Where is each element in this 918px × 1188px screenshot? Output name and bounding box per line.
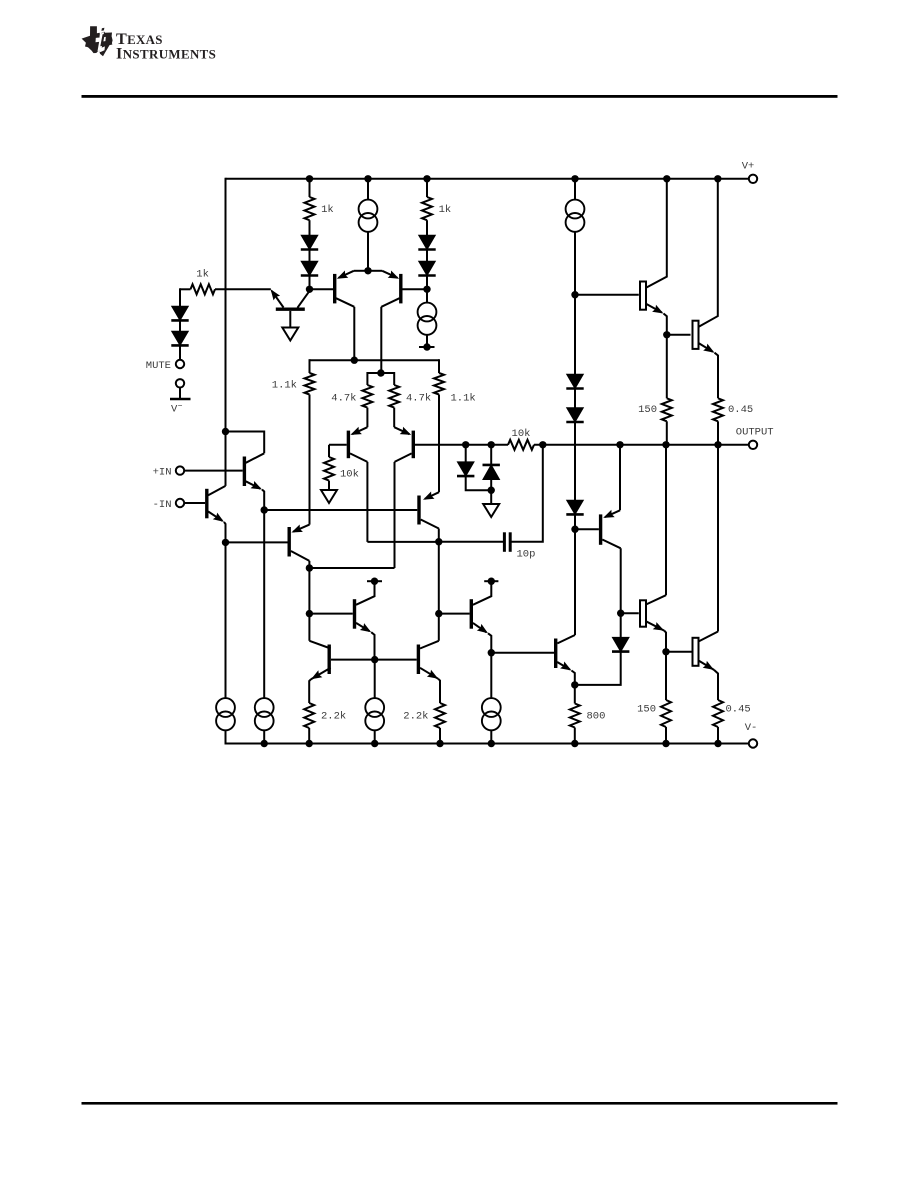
resistor 1.1k right lead <box>438 359 440 373</box>
wire V+ top rail <box>226 178 750 180</box>
transistor Q5 emitter <box>208 512 222 521</box>
wire bracket 373 <box>367 372 394 374</box>
wire 150 bottom lead <box>665 652 667 700</box>
transistor Q2 emitter <box>339 271 354 278</box>
wire node D to current source I2 <box>426 289 428 302</box>
wire 1.1k right down <box>438 395 440 493</box>
wire bracket 360 <box>310 359 440 361</box>
resistor 0.45 top <box>713 398 723 421</box>
wire D10 down cross output <box>574 422 576 500</box>
wire Q12 base <box>439 613 470 615</box>
arrow Q1 base to V- <box>282 328 298 341</box>
terminal V- rail <box>749 739 757 747</box>
wire I6 to rail <box>490 730 492 743</box>
wire Q19 base line <box>666 651 692 653</box>
terminal OUTPUT <box>749 441 757 449</box>
node 800 top <box>571 681 578 688</box>
node D <box>423 286 430 293</box>
transistor Q12 collector <box>473 584 491 605</box>
wire Q18 base line <box>667 334 691 336</box>
diode D8 <box>483 464 500 467</box>
wire left rail to I4 <box>225 542 227 697</box>
transistor Q7 emitter <box>394 427 409 434</box>
diode D6 <box>419 261 436 275</box>
wire 575 down to Q15 collector <box>574 529 576 635</box>
current source I6 <box>482 698 501 717</box>
transistor Q1 collector <box>298 290 311 308</box>
transistor Q1 base lead <box>289 311 291 328</box>
resistor 1k right <box>422 197 432 220</box>
wire I7 down to node <box>574 232 576 295</box>
wire Q8 collector down <box>308 561 310 568</box>
transistor Q16 bar <box>640 282 646 310</box>
node 2.2k left rail <box>306 740 313 747</box>
transistor Q1 emitter <box>272 291 284 308</box>
svg-text:10p: 10p <box>517 549 536 561</box>
wire 4.7k left down <box>366 408 368 428</box>
wire node B to Q2 base <box>310 288 334 290</box>
transistor Q18 bar <box>693 321 699 349</box>
transistor Q6 collector <box>350 453 367 462</box>
terminal V+ <box>749 175 757 183</box>
transistor Q17 collector diag <box>646 595 666 604</box>
node 2.2k right rail <box>436 740 443 747</box>
wire Q12 emitter down <box>488 633 491 652</box>
wire D3-D4 <box>309 250 311 261</box>
resistor 150 top <box>662 398 672 421</box>
current source I7 <box>566 200 585 219</box>
wire D7 lead <box>465 445 467 462</box>
resistor 10k vert <box>324 457 334 481</box>
wire base line 510 <box>264 509 417 511</box>
wire D7 bottom corner <box>466 476 492 490</box>
node Q19 base node <box>662 648 669 655</box>
node Q18 base node <box>663 331 670 338</box>
resistor 2.2k right <box>435 703 445 728</box>
node 800 rail <box>571 740 578 747</box>
wire 0.45 top to output <box>717 421 719 445</box>
wire I5 to rail <box>374 730 376 743</box>
wire Q4 emitter down <box>262 490 264 511</box>
wire 1k left to D3 <box>309 220 311 235</box>
node Q4 collector rail <box>222 428 229 435</box>
arrow clamp to V- <box>483 504 499 517</box>
current source I5 <box>365 698 384 717</box>
svg-text:10k: 10k <box>512 428 531 440</box>
wire D9-D10 <box>574 389 576 408</box>
transistor Q19 collector diag <box>699 632 719 642</box>
svg-text:10k: 10k <box>340 469 359 481</box>
wire Q10 collector down <box>620 548 622 613</box>
node clamp right <box>488 441 495 448</box>
wire 150 top lead <box>666 335 668 399</box>
transistor Q19 bar <box>693 638 699 666</box>
wire 1k left lead <box>309 179 311 197</box>
wire Q7 collector down <box>394 462 396 568</box>
svg-text:TEXAS: TEXAS <box>116 30 163 48</box>
wire I6 lead <box>490 653 492 698</box>
wire Q9 collector down <box>438 529 440 542</box>
wire Q13 emitter down <box>309 679 311 703</box>
wire V- mute stub <box>179 388 181 400</box>
resistor 1.1k left <box>305 373 315 395</box>
node I3 rail <box>261 740 268 747</box>
transistor Q11 emitter <box>356 623 370 631</box>
svg-text:2.2k: 2.2k <box>321 711 346 723</box>
wire D8 bottom <box>490 480 492 504</box>
transistor Q6 bar <box>347 431 350 459</box>
transistor Q14 collector <box>420 641 439 649</box>
header rule <box>82 95 838 98</box>
wire Q19 emitter down <box>714 670 718 700</box>
svg-text:V+: V+ <box>742 161 755 173</box>
diode D9 <box>567 374 584 388</box>
transistor Q10 emitter <box>605 510 620 517</box>
wire left rail upper <box>225 178 227 432</box>
node top rail junction I7 <box>571 175 578 182</box>
node Q10 base <box>571 526 578 533</box>
terminal V- mute <box>176 379 184 387</box>
node y542 <box>222 539 229 546</box>
wire Q16 base line <box>575 294 639 296</box>
wire Q10 base line <box>575 528 599 530</box>
transistor Q14 emitter <box>420 668 438 679</box>
svg-text:INSTRUMENTS: INSTRUMENTS <box>116 44 216 62</box>
svg-text:800: 800 <box>587 711 606 723</box>
wire node to D12 <box>620 613 622 637</box>
node 439-613 <box>435 610 442 617</box>
transistor Q18 emitter <box>699 343 713 352</box>
node top rail junction A <box>306 175 313 182</box>
wire emitter bracket left <box>354 270 368 272</box>
wire cap left <box>439 541 503 543</box>
resistor 1k mute <box>191 284 216 294</box>
wire Q5 emitter down <box>224 522 226 543</box>
current source I4 <box>216 698 235 717</box>
svg-text:4.7k: 4.7k <box>406 393 431 405</box>
wire Q17 base line <box>621 612 639 614</box>
wire 0.45 bottom to rail <box>717 727 719 744</box>
transistor Q15 collector diag <box>557 635 575 643</box>
transistor Q16 collector <box>646 179 667 288</box>
wire node to D9 <box>574 295 576 375</box>
transistor Q19 emitter <box>699 661 715 670</box>
svg-text:1k: 1k <box>196 268 209 280</box>
wire Q2 collector down <box>353 307 355 360</box>
wire 309 down to Q13 collector <box>308 614 310 641</box>
transistor Q12 emitter <box>473 623 486 632</box>
transistor Q14 bar <box>417 645 420 675</box>
resistor 800 <box>570 704 580 728</box>
node 309-613 <box>306 610 313 617</box>
wire mute diode column <box>179 288 181 306</box>
wire Q4 collector <box>226 432 265 454</box>
svg-text:0.45: 0.45 <box>726 704 751 716</box>
transistor Q10 bar <box>599 514 602 544</box>
bar V- mute <box>170 398 191 401</box>
wire I7 top lead <box>574 179 576 200</box>
resistor 0.45 bottom <box>713 700 723 727</box>
wire VAS link <box>367 541 438 543</box>
wire I4 to rail corner <box>225 730 227 744</box>
node Q10 emitter branch <box>616 441 623 448</box>
diode mute D2 <box>172 331 189 345</box>
node 0.45 bottom rail <box>714 740 721 747</box>
transistor Q4 emitter <box>246 481 260 488</box>
node y510 <box>261 506 268 513</box>
wire I1 top lead <box>367 179 369 200</box>
wire rail to Q5 collector <box>225 432 227 486</box>
node VAS cap <box>435 538 442 545</box>
transistor Q4 collector diag <box>246 453 264 463</box>
wire 439 down to Q14 collector <box>438 614 440 641</box>
node Q2C on bracket <box>351 357 358 364</box>
transistor Q1 base bar <box>276 308 305 311</box>
node 0.45 output <box>714 441 721 448</box>
wire node D to Q3 base <box>403 288 428 290</box>
wire Q11 base <box>309 613 352 615</box>
node 150 output <box>662 441 669 448</box>
wire mute D1-D2 <box>179 321 181 332</box>
transistor Q2 bar <box>333 274 336 304</box>
transistor Q15 emitter <box>557 662 570 670</box>
transistor Q13 collector <box>309 641 330 649</box>
node Q16 base <box>571 291 578 298</box>
wire I2 bottom <box>426 335 428 347</box>
diode D11 <box>567 500 584 514</box>
wire 10k stub <box>328 445 330 457</box>
wire Q16 emitter down <box>664 314 667 335</box>
transistor Q15 bar <box>554 639 557 669</box>
node I6 rail <box>488 740 495 747</box>
svg-text:0.45: 0.45 <box>728 404 753 416</box>
wire I1 to emitters <box>367 232 369 271</box>
footer rule <box>82 1102 838 1105</box>
svg-text:2.2k: 2.2k <box>403 711 428 723</box>
svg-text:1.1k: 1.1k <box>272 380 297 392</box>
transistor Q3 collector <box>381 298 399 307</box>
wire Q15 base line <box>491 652 554 654</box>
node top rail junction C <box>423 175 430 182</box>
terminal -IN <box>176 499 184 507</box>
transistor Q13 emitter <box>311 668 331 679</box>
wire D11 to node <box>574 515 576 530</box>
transistor Q17 bar <box>640 600 646 626</box>
wire Q6 collector down <box>366 462 368 542</box>
wire 2.2k left to rail <box>308 728 310 744</box>
node base node left <box>371 656 378 663</box>
wire Q15 emitter down <box>572 671 575 685</box>
svg-text:MUTE: MUTE <box>146 360 171 372</box>
wire Q11 emitter down <box>371 632 374 659</box>
transistor Q11 bar <box>353 599 356 629</box>
resistor 150 bottom <box>661 700 671 727</box>
arrow 10k to V- <box>321 490 337 503</box>
wire Q4 base <box>184 470 242 472</box>
node cap branch <box>539 441 546 448</box>
resistor 4.7k left lead <box>366 372 368 385</box>
wire 800 to rail <box>574 728 576 744</box>
resistor 1.1k right <box>434 373 444 395</box>
terminal MUTE <box>176 360 184 368</box>
node y568 <box>306 564 313 571</box>
transistor Q2 collector <box>336 298 354 307</box>
node I5 rail <box>371 740 378 747</box>
diode D3 <box>301 235 318 249</box>
wire mute D2 to terminal <box>179 346 181 360</box>
wire 4.7k right down <box>393 408 395 428</box>
wire mute to Q1 emitter <box>215 288 271 290</box>
transistor Q9 collector <box>421 520 439 529</box>
wire Q8 base line <box>226 541 288 543</box>
diode D10 <box>567 408 584 422</box>
svg-text:-IN: -IN <box>153 499 172 511</box>
svg-text:OUTPUT: OUTPUT <box>736 427 774 439</box>
wire Q6 base <box>329 444 347 446</box>
wire 2.2k right to rail <box>439 728 441 744</box>
wire Q7 base to clamp <box>415 444 508 446</box>
svg-text:V-: V- <box>745 722 758 734</box>
wire emitter bracket right <box>368 270 382 272</box>
resistor 1.1k left lead <box>309 359 311 373</box>
current source I3 <box>255 698 274 717</box>
wire output to Q19 collector <box>717 445 719 632</box>
wire 150 bottom to rail <box>665 727 667 744</box>
wire V- bottom rail <box>226 743 750 745</box>
wire Q14 emitter down <box>438 679 440 703</box>
transistor Q17 emitter <box>646 621 664 630</box>
transistor Q3 bar <box>399 274 402 304</box>
transistor Q7 collector <box>395 453 412 462</box>
wire D5-D6 <box>426 250 428 261</box>
wire Q10 emitter riser <box>619 445 621 511</box>
svg-text:1k: 1k <box>321 204 334 216</box>
node clamp left <box>462 441 469 448</box>
transistor Q10 collector <box>602 540 620 549</box>
svg-text:4.7k: 4.7k <box>331 393 356 405</box>
wire Q3 collector down <box>380 307 382 373</box>
node Q11 collector stub <box>367 580 382 582</box>
diode D4 <box>301 261 318 275</box>
svg-text:+IN: +IN <box>153 467 172 479</box>
node 150 bottom rail <box>662 740 669 747</box>
node Q12 collector stub <box>484 580 498 582</box>
transistor Q13 bar <box>328 645 331 675</box>
node Q17 base node <box>617 610 624 617</box>
wire 10k to arrow <box>328 481 330 490</box>
transistor Q8 collector <box>291 551 310 561</box>
resistor 4.7k right <box>389 385 399 408</box>
diode D12 <box>612 637 629 651</box>
transistor Q16 emitter <box>646 304 662 313</box>
current source I1 <box>359 200 378 219</box>
svg-text:150: 150 <box>638 404 657 416</box>
node Q18 collector rail <box>714 175 721 182</box>
transistor Q4 bar <box>243 457 246 487</box>
diode mute D1 <box>172 306 189 320</box>
node clamp bottom <box>488 487 495 494</box>
terminal +IN <box>176 466 184 474</box>
wire 150 top to output <box>666 421 668 445</box>
resistor 4.7k right lead <box>393 372 395 385</box>
wire D4 to node B <box>309 276 311 290</box>
wire I5 lead <box>374 660 376 698</box>
wire node568 down <box>308 568 310 614</box>
transistor Q18 collector <box>699 179 718 327</box>
svg-text:150: 150 <box>637 704 656 716</box>
wire VAS down <box>438 542 440 614</box>
wire 800 lead <box>574 685 576 704</box>
wire Q4 emitter to I3 <box>263 510 265 698</box>
wire 1k right lead <box>426 179 428 197</box>
wire 1.1k left down <box>309 395 311 525</box>
wire Q5 base <box>184 502 205 504</box>
transistor Q6 emitter <box>352 427 367 434</box>
resistor 4.7k left <box>362 385 372 408</box>
wire D8 lead <box>490 445 492 465</box>
wire 568 link <box>309 567 394 569</box>
transistor Q5 bar <box>205 489 208 519</box>
wire output to Q17 collector <box>665 445 667 595</box>
transistor Q9 bar <box>417 496 420 525</box>
resistor 1k mute lead left <box>180 288 191 290</box>
svg-text:1k: 1k <box>439 204 452 216</box>
wire output line <box>534 444 749 446</box>
wire D6 to node D <box>426 276 428 290</box>
wire Q17 emitter down <box>664 631 666 652</box>
node I2 end stub <box>419 346 435 348</box>
node Q16 collector rail <box>663 175 670 182</box>
node B <box>306 286 313 293</box>
wire base line bottom left <box>331 659 417 661</box>
node top rail junction I1 <box>364 175 371 182</box>
node emitters Q2 Q3 <box>364 267 371 274</box>
transistor Q11 collector <box>356 584 375 605</box>
wire cap right riser <box>511 445 543 542</box>
transistor Q3 emitter <box>382 271 397 278</box>
wire D12 to Q15 emitter <box>575 652 621 685</box>
diode D5 <box>419 235 436 249</box>
wire I3 to rail <box>263 730 265 743</box>
transistor Q8 bar <box>288 527 291 557</box>
node Q15 base node <box>488 649 495 656</box>
node Q3C on bracket <box>377 369 384 376</box>
transistor Q12 bar <box>470 599 473 629</box>
resistor 2.2k left <box>304 703 314 728</box>
current source I2 <box>418 303 437 322</box>
capacitor C1 10p <box>503 532 506 552</box>
transistor Q8 emitter <box>293 525 309 532</box>
transistor Q7 bar <box>412 431 415 459</box>
transistor Q9 emitter <box>425 492 439 499</box>
resistor 1k left <box>305 197 315 220</box>
wire 1k right to D5 <box>426 220 428 235</box>
wire Q18 emitter down <box>715 353 719 399</box>
svg-text:1.1k: 1.1k <box>451 393 476 405</box>
resistor 10k inline <box>508 440 534 450</box>
diode D7 <box>457 462 474 476</box>
transistor Q5 collector diag <box>208 486 225 495</box>
